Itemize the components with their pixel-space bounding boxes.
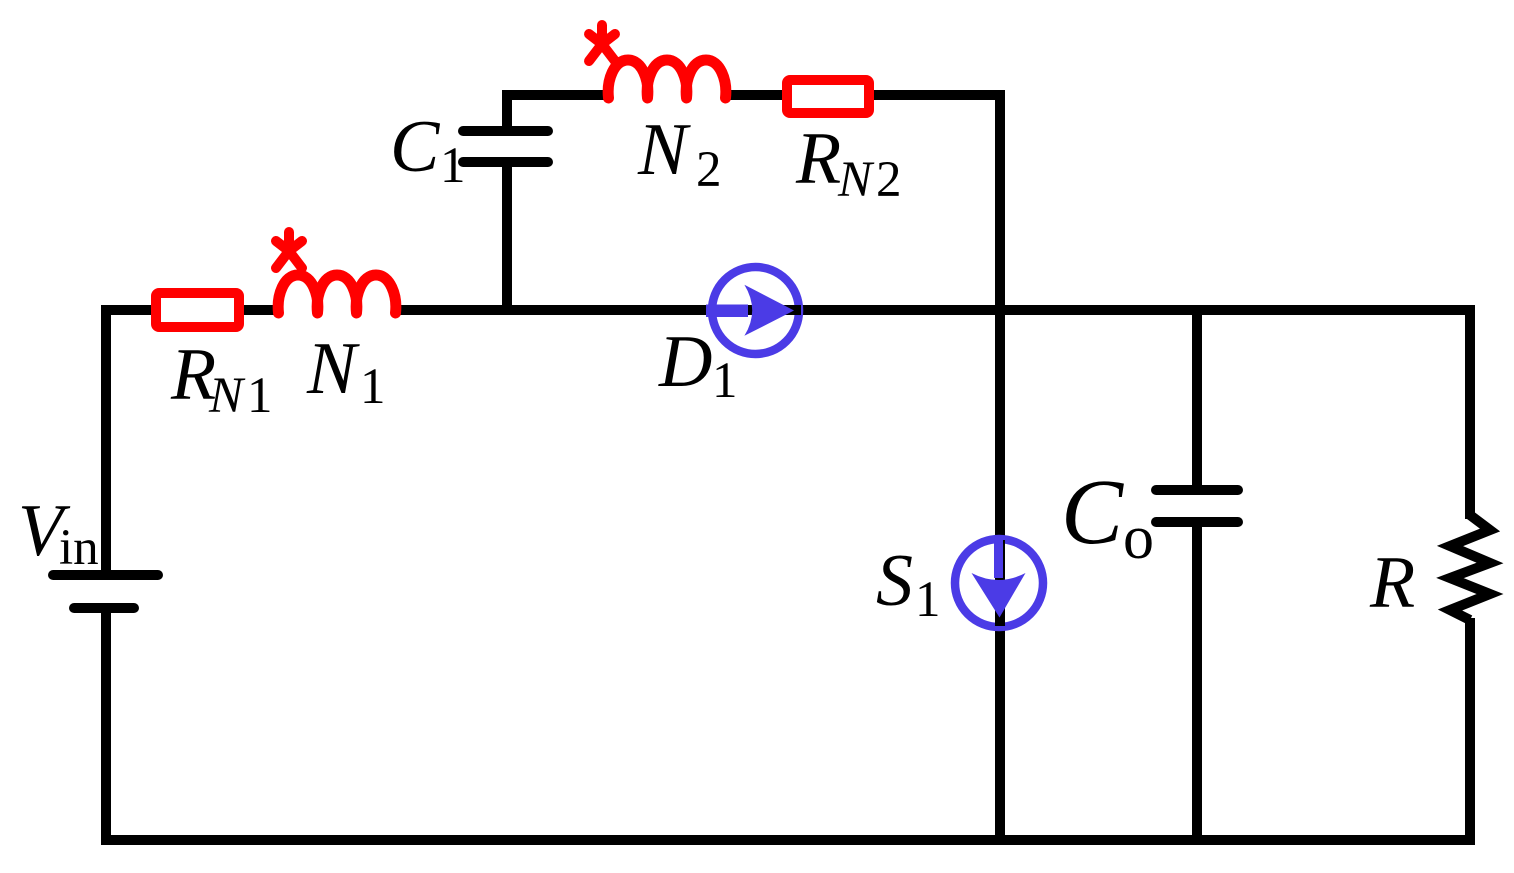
svg-text:1: 1: [915, 572, 941, 628]
svg-text:2: 2: [876, 152, 902, 208]
svg-text:1: 1: [440, 138, 466, 194]
svg-text:N: N: [637, 109, 691, 191]
svg-text:1: 1: [712, 353, 738, 409]
svg-text:in: in: [59, 520, 99, 576]
svg-text:N: N: [306, 328, 360, 410]
svg-text:R: R: [1369, 542, 1415, 624]
svg-text:N: N: [208, 368, 246, 424]
svg-text:N: N: [837, 152, 875, 208]
svg-text:C: C: [1061, 461, 1124, 564]
svg-text:S: S: [876, 540, 913, 622]
svg-text:1: 1: [360, 359, 386, 415]
svg-text:o: o: [1123, 504, 1154, 572]
svg-text:D: D: [658, 321, 712, 403]
svg-text:1: 1: [247, 368, 273, 424]
svg-text:C: C: [390, 106, 441, 188]
svg-text:R: R: [795, 118, 841, 200]
svg-text:2: 2: [696, 142, 722, 198]
